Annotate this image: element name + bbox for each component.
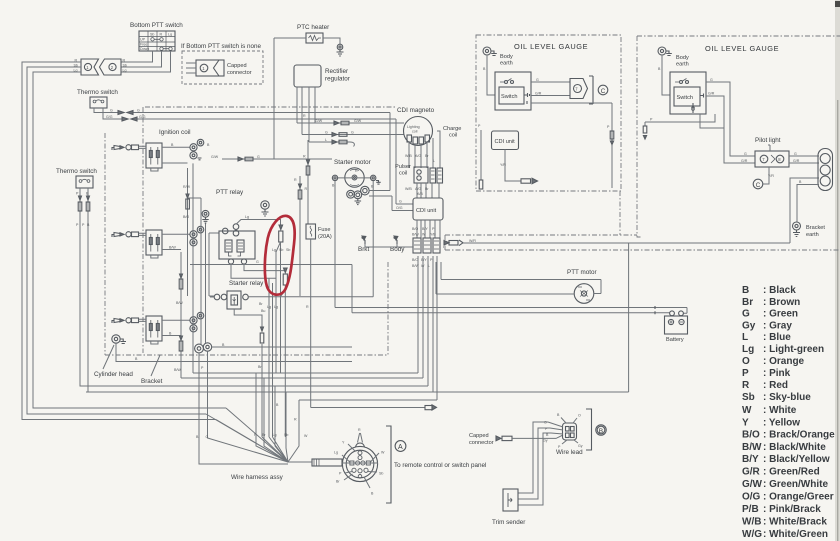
svg-text:: Black/White: : Black/White <box>763 442 826 453</box>
engine dashed left edge 1 <box>104 133 106 355</box>
fuse 20A box <box>306 224 316 239</box>
svg-text:B/W: B/W <box>742 442 762 453</box>
svg-text:G/R: G/R <box>708 92 715 96</box>
svg-text:Lg: Lg <box>123 69 127 73</box>
fuse holder 2 on x181 <box>179 336 183 351</box>
svg-text:: White/Brack: : White/Brack <box>763 517 827 528</box>
svg-text:OIL LEVEL GAUGE: OIL LEVEL GAUGE <box>705 44 779 53</box>
bowtie connector G <box>118 111 133 115</box>
junction ticks battery wires <box>654 306 656 314</box>
circled C R <box>753 179 763 189</box>
wire relay left x209 <box>209 233 219 296</box>
svg-text:earth: earth <box>806 232 819 238</box>
wire battery feed lower <box>352 265 670 313</box>
bus y378 <box>181 256 423 378</box>
bowtie connector row3 <box>332 140 347 144</box>
battery loop right <box>628 244 630 393</box>
oil gauge box right: top edge <box>637 35 840 37</box>
svg-text:Charge: Charge <box>443 126 461 132</box>
PTT relay coils <box>225 240 244 256</box>
wire O/G to CDI <box>392 196 413 211</box>
svg-text:coil: coil <box>399 171 407 177</box>
meter unit box L <box>570 79 588 99</box>
svg-text:Gy: Gy <box>543 439 548 443</box>
PTT motor body <box>574 284 594 304</box>
wires R Sb Lg into funnel <box>206 408 288 462</box>
svg-text:Sb: Sb <box>279 248 283 252</box>
coil2 B/W wire <box>151 250 181 259</box>
capped end connector <box>425 405 437 410</box>
wire G from switch R <box>706 82 755 156</box>
svg-text:: Pink/Brack: : Pink/Brack <box>763 504 821 515</box>
brush wire upper right <box>369 190 390 192</box>
Rectifier regulator box <box>294 65 321 87</box>
if-none dashed box <box>182 51 263 84</box>
wire R riser x308 <box>307 140 309 224</box>
svg-text:Lg: Lg <box>274 305 278 309</box>
svg-text:L: L <box>742 332 748 343</box>
Body ground arrow <box>394 236 398 244</box>
starter relay wire right <box>248 296 373 298</box>
starter terminal left <box>332 175 337 180</box>
P end connector R <box>643 126 647 139</box>
P terminal L <box>479 180 483 189</box>
svg-text:G: G <box>744 152 747 156</box>
svg-text:B/Y: B/Y <box>421 258 427 262</box>
svg-text:: Green: : Green <box>763 309 798 320</box>
pin lead Sb <box>368 471 377 474</box>
engine dashed left edge 2 <box>142 107 144 353</box>
svg-text:Rectifier: Rectifier <box>325 68 348 75</box>
coil2 HT wire <box>162 233 190 235</box>
coil3 HT wire <box>162 319 190 321</box>
svg-text:Wire lead: Wire lead <box>556 449 583 456</box>
capsule connector <box>818 149 833 191</box>
svg-text:: Yellow: : Yellow <box>763 418 800 429</box>
oil gauge left box extension down <box>619 191 621 235</box>
top-right scan mark <box>835 1 840 7</box>
CDI small wire down <box>505 150 521 182</box>
right scan strip <box>835 0 840 541</box>
svg-text:: White/Green: : White/Green <box>763 529 828 540</box>
wire from bottom fuse <box>281 285 285 437</box>
wire B cylinder head <box>116 343 352 361</box>
circled C L <box>598 85 608 95</box>
wire G/W row y159 <box>222 158 332 160</box>
svg-text:regulator: regulator <box>325 76 350 83</box>
PTT relay top terminals <box>222 224 238 236</box>
svg-text:Pilot light: Pilot light <box>755 137 781 144</box>
Thermo switch lower box <box>76 176 93 188</box>
connector A outer <box>342 443 377 482</box>
svg-text:Sb: Sb <box>123 64 127 68</box>
engine compartment dashed boundary top <box>145 106 395 108</box>
svg-text:Starter relay: Starter relay <box>229 280 264 287</box>
svg-text:PTT motor: PTT motor <box>567 269 597 276</box>
bus y386 <box>80 256 428 386</box>
C wire to pilot <box>763 167 769 184</box>
wire G/G run to CDI <box>137 119 413 204</box>
svg-text:Capped: Capped <box>469 433 489 439</box>
svg-text:Bracket: Bracket <box>806 225 825 231</box>
spark plug pair coil3 <box>190 312 204 332</box>
body earth L <box>483 47 497 56</box>
fuse in ellipse bottom <box>283 268 287 285</box>
bracket A <box>386 426 391 503</box>
svg-text:W: W <box>304 434 308 438</box>
svg-text:: Blue: : Blue <box>763 332 791 343</box>
PTC heater box <box>306 33 323 43</box>
bracket B <box>586 409 592 450</box>
relay bottom wires into bundle <box>231 264 285 437</box>
fuse20 wires <box>310 239 312 408</box>
svg-text:G: G <box>742 309 750 320</box>
wire capped to lead <box>512 435 563 438</box>
wire Body to stack <box>396 244 398 247</box>
engine dashed bottom <box>105 354 388 356</box>
svg-text:Switch: Switch <box>677 95 693 101</box>
svg-text:Sb: Sb <box>379 472 383 476</box>
bus y400 <box>299 256 437 400</box>
magneto terminals <box>407 135 430 144</box>
svg-text:O: O <box>578 414 581 418</box>
wire starter left terminal down <box>334 181 336 308</box>
lead fan wires <box>548 418 578 445</box>
wire R down left side <box>22 62 216 420</box>
svg-text:A/G: A/G <box>415 187 421 191</box>
thermo2 wire B <box>88 188 622 392</box>
svg-text:Down: Down <box>140 47 149 51</box>
svg-text:PTT relay: PTT relay <box>216 189 244 196</box>
pulser coil box <box>414 167 428 183</box>
CDI lower connector stack <box>413 238 440 253</box>
bracket earth <box>793 222 801 237</box>
coil3 pair wire <box>139 319 147 321</box>
svg-text:Free: Free <box>140 42 147 46</box>
svg-text:(20A): (20A) <box>318 234 332 240</box>
switch outer box L <box>495 72 531 110</box>
svg-text:Y/R: Y/R <box>500 163 506 167</box>
wires pilot to capsule G G/R <box>789 156 819 163</box>
wire starter right terminal down <box>372 181 374 297</box>
svg-text:R: R <box>303 114 306 118</box>
connector 1 male <box>81 59 99 75</box>
wire B main down x201 <box>188 198 202 345</box>
svg-text:W/G: W/G <box>742 529 762 540</box>
bolt terminal w ground (right) <box>261 201 269 216</box>
G/W bowtie connector <box>238 157 253 161</box>
wire G horizontal <box>190 264 352 266</box>
svg-text:: Orange/Greer: : Orange/Greer <box>763 492 834 503</box>
CDI unit box <box>413 198 443 220</box>
spark plug pair coil2 <box>190 226 204 246</box>
svg-text:: Brown: : Brown <box>763 297 800 308</box>
wire lead connector <box>563 423 577 440</box>
svg-text:R: R <box>123 59 126 63</box>
svg-text:R: R <box>294 418 297 422</box>
switch internals R <box>692 94 704 114</box>
ignition coil 3 <box>146 316 162 341</box>
svg-text:B/W: B/W <box>174 368 181 372</box>
Brkt ground arrow <box>362 236 366 244</box>
hull dashed boundary bottom <box>445 249 840 251</box>
svg-text:R: R <box>160 33 163 37</box>
harness sheath <box>312 459 342 466</box>
battery box <box>665 316 688 334</box>
red highlight ellipse <box>265 216 295 295</box>
bowtie connector row2 <box>332 133 347 137</box>
wire B to bracket earth <box>797 185 819 223</box>
coil3 bullet connector <box>126 318 139 323</box>
svg-text:A: A <box>398 444 403 451</box>
svg-text:L: L <box>325 138 327 142</box>
thermo2 wire P <box>80 188 428 386</box>
connector stack right of pulser <box>430 168 443 183</box>
pin lead R <box>358 433 363 443</box>
circled A <box>395 441 406 452</box>
capped connector 2 <box>496 436 512 441</box>
svg-text:Gy: Gy <box>578 444 583 448</box>
svg-text:: Red: : Red <box>763 380 788 391</box>
wire battery feed top <box>335 308 687 314</box>
svg-text:W: W <box>742 405 752 416</box>
svg-text:G: G <box>399 200 402 204</box>
CDI unit small box <box>492 131 519 150</box>
fuse column R/W x187 <box>187 168 189 296</box>
svg-text:CDI unit: CDI unit <box>495 139 516 145</box>
thermo2 bullet connector P <box>78 196 82 211</box>
svg-text:Sb: Sb <box>150 33 154 37</box>
svg-text:R: R <box>303 155 306 159</box>
svg-text:Body: Body <box>500 54 513 60</box>
svg-text:C: C <box>601 88 606 95</box>
svg-text:: Sky-blue: : Sky-blue <box>763 392 811 403</box>
svg-text:Thermo switch: Thermo switch <box>77 89 118 96</box>
wire Lg from relay to fuse <box>236 220 281 226</box>
bullet connector on x300 <box>298 184 302 199</box>
wire G/R from switch R <box>706 96 755 163</box>
W/R capped connector <box>444 240 463 246</box>
svg-text:: Brack/Orange: : Brack/Orange <box>763 430 835 441</box>
svg-text:G: G <box>325 130 328 134</box>
lighting coil circle <box>404 117 433 146</box>
pilot light box <box>755 151 789 167</box>
wire G row2 <box>302 134 404 136</box>
battery terminals <box>670 311 684 316</box>
circled B <box>596 425 606 435</box>
coil1 bullet connector <box>126 145 139 150</box>
svg-text:R: R <box>294 178 297 182</box>
svg-text:G/R: G/R <box>535 91 542 95</box>
trim sender wires <box>518 422 551 505</box>
thermo2 bullet connector B <box>86 196 90 211</box>
svg-text:G: G <box>257 155 260 159</box>
bolt terminal w ground (left) <box>202 210 209 223</box>
switch outer box R <box>670 72 706 114</box>
svg-text:Lg: Lg <box>273 433 277 437</box>
svg-text:earth: earth <box>676 62 689 68</box>
svg-text:L: L <box>433 159 435 163</box>
pin lead W <box>370 453 379 462</box>
svg-text:G/R: G/R <box>741 159 748 163</box>
P bullet on x612 <box>610 131 614 145</box>
svg-text:Y/B: Y/B <box>430 233 436 237</box>
wires from PTT switch down to connector <box>121 51 171 72</box>
svg-text:If Bottom PTT switch is none: If Bottom PTT switch is none <box>181 43 262 50</box>
svg-text:Body: Body <box>676 55 689 61</box>
svg-text:G/R: G/R <box>793 159 800 163</box>
svg-text:CDI magneto: CDI magneto <box>397 107 435 114</box>
svg-text:G: G <box>110 109 113 113</box>
svg-text:Lg: Lg <box>272 248 276 252</box>
svg-text:G/W: G/W <box>315 119 323 123</box>
svg-text:B/W: B/W <box>412 233 419 237</box>
funnel feeder P <box>256 373 288 462</box>
svg-text:Lg: Lg <box>168 33 172 37</box>
pin lead Y <box>348 444 355 451</box>
engine dashed right stub <box>387 262 389 355</box>
oil gauge box left (dash-dot) <box>476 35 621 191</box>
cylinder head bolt <box>112 335 126 344</box>
svg-text:B/O: B/O <box>412 227 418 231</box>
svg-text:: Black/Yellow: : Black/Yellow <box>763 454 830 465</box>
starter ground <box>355 199 362 205</box>
pin lead Br <box>344 474 353 480</box>
svg-text:OIL LEVEL GAUGE: OIL LEVEL GAUGE <box>514 42 588 51</box>
cylinder head leader <box>103 345 114 369</box>
wire L row3 <box>309 142 354 147</box>
svg-text:Capped: Capped <box>227 63 247 69</box>
coil2 input chain <box>112 233 124 238</box>
wire P R <box>645 114 715 126</box>
switch inner box R <box>674 87 700 106</box>
svg-text:B/W: B/W <box>176 301 183 305</box>
svg-text:Bracket: Bracket <box>141 378 163 385</box>
coil1 input chain: ground arrow <box>112 146 124 151</box>
svg-text:: Green/Red: : Green/Red <box>763 467 820 478</box>
svg-text:Lg: Lg <box>267 305 271 309</box>
pin lead Lg <box>342 455 350 462</box>
svg-text:G: G <box>794 152 797 156</box>
svg-text:Switch: Switch <box>501 94 517 100</box>
svg-text:To remote control or switch pa: To remote control or switch panel <box>394 462 486 469</box>
svg-text:Pulser: Pulser <box>395 164 411 170</box>
svg-text:: Green/White: : Green/White <box>763 479 828 490</box>
svg-text:Cylinder head: Cylinder head <box>94 371 133 378</box>
svg-text:G: G <box>351 130 354 134</box>
svg-text:A/B: A/B <box>417 192 423 196</box>
svg-text:B/O: B/O <box>412 258 418 262</box>
wire B to capped end <box>311 407 425 409</box>
fuse in ellipse top <box>279 225 283 242</box>
svg-text:O/G: O/G <box>742 492 761 503</box>
svg-text:Ignition coil: Ignition coil <box>159 129 191 136</box>
svg-text:C: C <box>756 182 761 189</box>
svg-text:Lg: Lg <box>245 215 249 219</box>
svg-text:Y/R: Y/R <box>768 174 774 178</box>
wire B from rings <box>212 346 352 348</box>
svg-text:Gy: Gy <box>742 321 756 332</box>
svg-text:Sb: Sb <box>742 392 755 403</box>
svg-text:Starter motor: Starter motor <box>334 159 371 166</box>
svg-text:Lighting: Lighting <box>407 125 420 129</box>
Thermo switch upper box <box>90 97 107 108</box>
svg-text:G/W: G/W <box>742 479 763 490</box>
svg-text:Bu: Bu <box>261 309 265 313</box>
connector A center line <box>342 462 378 464</box>
svg-text:R: R <box>742 380 750 391</box>
svg-text:: Gray: : Gray <box>763 321 792 332</box>
svg-text:G/W: G/W <box>211 155 219 159</box>
switch inner box L <box>499 87 524 104</box>
wire G/W row <box>297 122 404 124</box>
svg-text:G: G <box>206 435 209 439</box>
rectifier leads down <box>297 87 315 142</box>
ignition coil 2 <box>146 230 162 255</box>
thermo switch wires G / G,G <box>94 108 122 119</box>
svg-text:W/B: W/B <box>405 154 412 158</box>
wire R riser x300 <box>299 176 301 296</box>
fuse top wire out <box>276 242 281 373</box>
engine dashed bottom right segment <box>445 234 637 236</box>
bowtie connector G/W <box>334 121 349 125</box>
svg-text:G/G: G/G <box>106 115 113 119</box>
svg-text:B/Y: B/Y <box>742 454 759 465</box>
bus y373 <box>193 163 418 373</box>
fuse holder 1 on x181 <box>179 274 183 289</box>
body earth R <box>658 47 672 56</box>
svg-text:O/G: O/G <box>396 206 403 210</box>
coil1 bottom wire <box>151 163 188 171</box>
svg-text:R: R <box>306 305 309 309</box>
svg-text:Fuse: Fuse <box>318 227 330 233</box>
wire PTT motor loop lower <box>436 262 574 294</box>
funnel feeder Br <box>264 378 288 462</box>
svg-text:W: W <box>381 451 385 455</box>
svg-text:R: R <box>355 169 358 173</box>
svg-text:Thermo switch: Thermo switch <box>56 168 97 175</box>
right page edge line <box>837 100 838 541</box>
starter relay terminals <box>214 294 248 300</box>
svg-text:G: G <box>710 78 713 82</box>
svg-text:B: B <box>599 428 603 435</box>
brush wire lower right <box>369 195 392 197</box>
wire G/R from switch L <box>531 95 570 97</box>
svg-text:G/W: G/W <box>354 119 362 123</box>
svg-text:earth: earth <box>500 61 513 67</box>
bundle drops from ellipse <box>262 437 288 462</box>
fuse holder on x262 <box>260 327 264 343</box>
starter motor body <box>345 168 364 187</box>
wire W/R long run <box>443 178 819 247</box>
svg-text:coil: coil <box>412 130 418 134</box>
svg-text:Sb: Sb <box>284 433 288 437</box>
spark plug pair coil1 <box>190 139 204 159</box>
svg-text:Wire harness assy: Wire harness assy <box>231 474 284 481</box>
wire G from switch L <box>531 81 570 83</box>
svg-text:CDI unit: CDI unit <box>416 208 437 214</box>
svg-text:: Pink: : Pink <box>763 368 791 379</box>
pin lead B <box>364 477 370 488</box>
wire G run to CDI <box>133 113 390 191</box>
svg-text:: Light-green: : Light-green <box>763 344 824 355</box>
connector 2 female <box>100 59 122 75</box>
pin lead P <box>345 472 352 474</box>
svg-text:W/B: W/B <box>405 187 412 191</box>
bus y392 <box>86 256 629 392</box>
svg-text:Trim sender: Trim sender <box>492 519 525 526</box>
ignition coil 1 <box>146 143 162 168</box>
